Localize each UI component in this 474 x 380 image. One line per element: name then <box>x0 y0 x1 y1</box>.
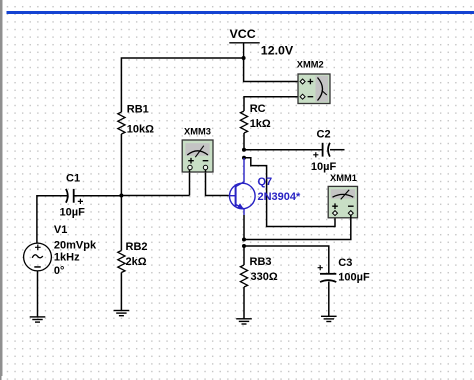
svg-text:C1: C1 <box>66 173 80 185</box>
svg-text:RC: RC <box>250 103 266 115</box>
wire C3 to ground <box>328 282 330 317</box>
svg-text:Q7: Q7 <box>258 176 273 188</box>
XMM3 terminal - <box>203 165 207 169</box>
resistor RB2 <box>118 251 125 273</box>
wire VCC junction to RB1 column <box>121 58 243 112</box>
wire C1 right to base node <box>74 195 122 197</box>
node: collector / XMM1 junction <box>242 156 246 160</box>
node: base / C1 / RB1 / RB2 junction <box>119 194 123 198</box>
svg-text:2N3904*: 2N3904* <box>258 191 302 203</box>
wire VCC to XMM2 plus <box>244 58 300 82</box>
svg-text:C3: C3 <box>338 257 352 269</box>
node: emitter / C3 junction <box>242 244 246 248</box>
svg-text:V1: V1 <box>54 224 67 236</box>
capacitor C1 <box>60 173 86 219</box>
wire XMM2 minus to RC top <box>244 97 300 111</box>
wire RC bottom to collector node <box>243 133 245 150</box>
svg-text:RB1: RB1 <box>127 104 149 116</box>
transistor Q7 2N3904 <box>229 158 255 215</box>
svg-text:100µF: 100µF <box>338 272 370 284</box>
power net VCC symbol <box>229 43 259 58</box>
svg-text:1kHz: 1kHz <box>54 251 80 263</box>
wire RB1 bottom to base node <box>120 134 122 196</box>
wire C2 right to output stub <box>330 149 345 151</box>
left window edge <box>0 0 2 376</box>
svg-text:12.0V: 12.0V <box>261 44 294 58</box>
Q7 base bar <box>235 184 237 206</box>
wire V1 to ground <box>37 271 39 317</box>
svg-text:C2: C2 <box>317 129 331 141</box>
XMM2 terminal + <box>300 79 305 84</box>
ground (V1) <box>30 317 46 322</box>
svg-text:RB2: RB2 <box>126 241 148 253</box>
svg-text:20mVpk: 20mVpk <box>54 239 97 251</box>
Q7 emitter pin with arrow <box>236 204 244 215</box>
sheet border line (blue) <box>7 11 474 14</box>
multimeter XMM1 <box>328 173 357 218</box>
svg-text:330Ω: 330Ω <box>251 271 278 283</box>
node: emitter / XMM1 minus junction <box>242 238 246 242</box>
svg-text:RB3: RB3 <box>250 256 272 268</box>
XMM1 terminal + <box>333 211 338 216</box>
wire RB3 to ground <box>243 287 245 319</box>
Q7 circle <box>230 183 256 209</box>
resistor RB3 <box>240 265 247 287</box>
wire XMM3 plus down <box>189 171 191 196</box>
resistor RB1 <box>118 112 125 134</box>
capacitor C3 <box>318 257 370 322</box>
AC source V1 <box>24 224 97 277</box>
svg-text:10kΩ: 10kΩ <box>127 124 154 136</box>
XMM1 terminal - <box>348 211 353 216</box>
node: VCC junction <box>242 56 246 60</box>
capacitor C2 <box>311 129 345 174</box>
svg-text:0°: 0° <box>54 265 65 277</box>
svg-text:10µF: 10µF <box>60 207 86 219</box>
XMM2 terminal - <box>300 94 305 99</box>
multimeter XMM3 <box>182 127 213 173</box>
resistor RC <box>240 111 247 133</box>
node: collector / C2 junction <box>242 148 246 152</box>
svg-text:XMM3: XMM3 <box>184 127 211 137</box>
wire emitter node to C3 <box>244 246 329 273</box>
svg-text:2kΩ: 2kΩ <box>126 256 147 268</box>
svg-text:10µF: 10µF <box>311 161 337 173</box>
wire XMM3 minus to base <box>206 171 229 196</box>
wire collector node to C2 <box>244 149 322 151</box>
multimeter XMM2 <box>297 60 330 104</box>
wire emitter node to RB3 <box>243 246 245 265</box>
wire collector node to XMM1 plus (staircase) <box>244 158 335 227</box>
Q7 collector pin <box>236 158 244 187</box>
wire base node to RB2 <box>120 196 122 251</box>
svg-text:XMM1: XMM1 <box>330 173 357 183</box>
ground (RB3) <box>236 319 252 324</box>
ground (C3) <box>321 316 337 321</box>
Q7 base pin <box>229 195 236 197</box>
ground (RB2) <box>114 311 130 316</box>
wire C1 left to V1 <box>37 196 68 244</box>
wire RB2 to ground <box>120 273 122 311</box>
wire stubs below XMM3 terminals <box>190 170 206 172</box>
XMM3 terminal + <box>188 165 192 169</box>
svg-text:VCC: VCC <box>230 27 256 41</box>
svg-text:1kΩ: 1kΩ <box>250 118 271 130</box>
wire emitter down <box>243 215 245 240</box>
wire XMM1 minus to emitter node <box>244 215 351 240</box>
wire base node to XMM3 plus <box>121 195 189 197</box>
svg-text:XMM2: XMM2 <box>297 60 324 70</box>
